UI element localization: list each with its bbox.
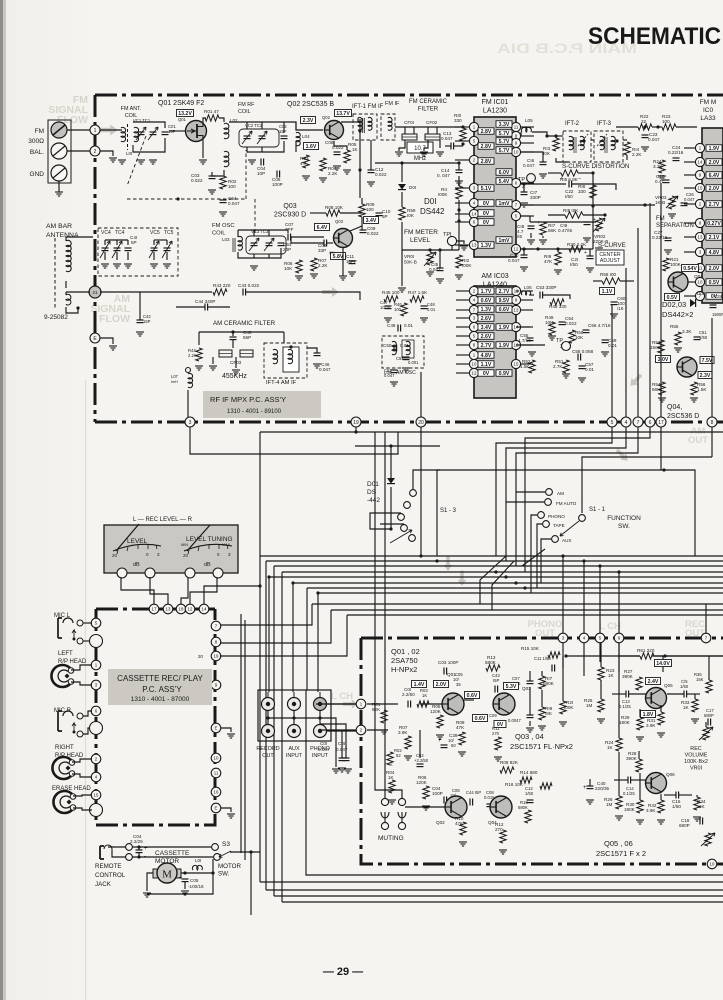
transistor Q02 amp (445, 796, 467, 818)
svg-text:C51: C51 (396, 356, 404, 361)
IC3 voltage 2.6V (478, 333, 494, 340)
svg-text:1.9V: 1.9V (709, 146, 720, 152)
IC3 pin 3 left (456, 313, 479, 322)
amp supply rail (619, 654, 723, 657)
IC2 pin 13 (684, 232, 705, 241)
grounds q07 (658, 348, 698, 402)
svg-text:C09: C09 (489, 713, 497, 718)
resistor R18 680K lower (518, 800, 531, 823)
svg-text:19: 19 (353, 420, 359, 426)
wire antenna mid (66, 281, 90, 295)
svg-text:15: 15 (698, 186, 703, 191)
svg-text:2SC1571 F x 2: 2SC1571 F x 2 (596, 849, 646, 858)
svg-text:82: 82 (396, 753, 401, 758)
resistor R01 47 (204, 109, 219, 121)
wire pivot riser (582, 457, 712, 513)
IC1 voltage 0V (478, 219, 494, 226)
motor loop wire (147, 859, 215, 894)
cap C05 100P (272, 171, 283, 188)
label C04 2.2/25 (130, 834, 143, 844)
IC2 voltage 0V (706, 293, 722, 300)
svg-text:1.1V: 1.1V (481, 362, 492, 368)
voltage 13.2V Q01 (177, 110, 194, 118)
cap C02 2.2/50 (414, 753, 429, 767)
svg-text:OUT: OUT (262, 753, 274, 759)
svg-text:120K: 120K (416, 780, 428, 785)
ceramic filter CF02 (425, 134, 440, 140)
svg-text:R15 10K: R15 10K (521, 646, 540, 651)
svg-text:0.01: 0.01 (404, 323, 413, 328)
svg-text:3.9K: 3.9K (646, 723, 656, 728)
svg-text:S-CURVE DISTORTION: S-CURVE DISTORTION (562, 163, 629, 170)
switch S1-1 labels (548, 491, 577, 543)
voltage 0.54V (682, 265, 699, 273)
svg-text:0.5V: 0.5V (709, 280, 720, 286)
svg-text:1500P: 1500P (712, 312, 723, 317)
svg-text:+: + (584, 250, 587, 256)
svg-text:3.3V: 3.3V (499, 122, 510, 128)
svg-text:11: 11 (514, 125, 519, 130)
svg-text:K: K (390, 762, 393, 767)
svg-text:1/50: 1/50 (680, 684, 689, 689)
cassette top pin 18 (176, 604, 186, 614)
bus drop to exit 4 (281, 572, 283, 902)
svg-text:ImH: ImH (171, 380, 178, 384)
IC1 voltage 1mV (496, 237, 512, 244)
wire antenna bottom (66, 306, 80, 313)
svg-text:Q05: Q05 (664, 683, 673, 688)
svg-text:L08: L08 (384, 370, 392, 375)
IC U2 LA3301 body (702, 128, 723, 303)
svg-text:Q05 , 06: Q05 , 06 (604, 839, 633, 848)
IC3 pin 8 left (456, 340, 479, 349)
resistor R19 47K (544, 249, 562, 274)
label S1-1 (589, 507, 606, 513)
cap C63 24P (278, 242, 292, 252)
svg-text:MAIN P.C.B DIA: MAIN P.C.B DIA (497, 40, 637, 56)
tuner border pin 7 (633, 417, 643, 427)
svg-text:100K: 100K (670, 262, 682, 267)
amp top pin 5 (595, 633, 605, 643)
jack PHONO INPUT top (314, 692, 327, 711)
svg-text:13: 13 (472, 243, 477, 248)
svg-text:RI8 I0K: RI8 I0K (563, 208, 579, 213)
label Q02 amp (436, 820, 445, 825)
svg-text:2.6V: 2.6V (481, 334, 492, 340)
svg-text:300Ω: 300Ω (28, 138, 44, 145)
svg-text:E: E (215, 806, 218, 811)
voltage 2.3V Q02 (301, 117, 316, 125)
IC1 pin 13 left (455, 240, 479, 249)
svg-text:12: 12 (472, 371, 477, 376)
bus drop to exit 3 (273, 566, 275, 896)
svg-text:GND: GND (30, 171, 45, 178)
svg-text:680K: 680K (485, 660, 497, 665)
svg-text:330: 330 (454, 118, 462, 123)
voltage 1.6V (304, 143, 319, 151)
svg-text:R61 220: R61 220 (637, 648, 655, 653)
wire gang rails (105, 240, 167, 260)
cap C11 1/50 (534, 656, 555, 672)
IC3 voltage 1.7V (478, 288, 494, 295)
resistor R02 82 (387, 748, 403, 767)
label IFT-2 IFT-3 (565, 121, 612, 127)
svg-text:0.047: 0.047 (508, 258, 520, 263)
resistor R50 10K (569, 330, 584, 343)
svg-text:LA33: LA33 (700, 115, 716, 122)
svg-text:1.5K: 1.5K (697, 387, 707, 392)
svg-text:2.4V: 2.4V (648, 679, 659, 685)
svg-text:AM BAR: AM BAR (46, 223, 72, 230)
grounds meter area (398, 272, 463, 292)
mic R jack (58, 711, 83, 737)
resistor R01 82K (372, 702, 388, 734)
label L08 AM OSC (384, 370, 416, 376)
svg-text:LA1230: LA1230 (483, 108, 507, 115)
svg-text:L03: L03 (222, 237, 230, 242)
cap C12 0.022 (368, 167, 387, 177)
svg-text:7: 7 (637, 420, 640, 426)
svg-text:VR0I: VR0I (404, 254, 414, 259)
svg-text:I5P: I5P (493, 678, 499, 683)
resistor R46 100 (394, 302, 407, 316)
label Q04 small (694, 274, 703, 279)
flow arrow right1 (627, 372, 644, 389)
cap C18 4.7/16 (517, 220, 540, 239)
svg-text:L — REC LEVEL — R: L — REC LEVEL — R (133, 517, 193, 523)
svg-text:8: 8 (711, 420, 714, 426)
exit wire 3 (274, 895, 723, 897)
ceramic filter CF03 a (219, 350, 232, 357)
IC3 pin 11 right (511, 286, 533, 295)
resistor R29 180K (619, 709, 644, 741)
svg-text:CF0I: CF0I (404, 120, 414, 125)
cap C43 0.022 (238, 283, 260, 296)
cap C05 10/35 (453, 672, 463, 687)
svg-text:Q02 2SC535 B: Q02 2SC535 B (287, 101, 334, 108)
svg-text:MOTOR: MOTOR (218, 863, 241, 870)
wire VC2 rail (229, 122, 296, 133)
IC3 voltage 1.9V (496, 342, 512, 349)
resistor R13 10K (543, 134, 559, 156)
cap C19 0.47/16 (558, 217, 596, 233)
wire osc bottom (238, 248, 281, 258)
IC1 voltage 2.8V (478, 143, 494, 150)
transistor Q06 (646, 773, 667, 794)
amp inner drop 5 (599, 643, 601, 662)
svg-text:2SC930 D: 2SC930 D (274, 212, 306, 219)
IC2 voltage 4.8V (706, 249, 722, 256)
ground osc (250, 266, 258, 270)
svg-text:3.4V: 3.4V (481, 325, 492, 331)
tuner border pin 17 (656, 417, 666, 427)
IC3 pin 13 right (511, 305, 533, 314)
svg-text:3.9K: 3.9K (398, 730, 408, 735)
amp left pin 1 (356, 699, 366, 709)
svg-text:19: 19 (214, 654, 219, 659)
wire coil bottom rail (133, 138, 165, 152)
IFT-2 transformer (563, 131, 591, 162)
label 455KHz (222, 373, 247, 380)
svg-text:100: 100 (394, 307, 402, 312)
svg-text:/I6: /I6 (517, 234, 523, 239)
bus wire 3 (274, 565, 723, 567)
IC2 pin 1 (684, 143, 705, 152)
cap C39 10/50 (438, 733, 458, 748)
svg-text:P.C. ASS’Y: P.C. ASS’Y (142, 685, 182, 694)
svg-text:13.7V: 13.7V (336, 111, 350, 117)
svg-text:10: 10 (514, 150, 519, 155)
resistor R13 680K (485, 655, 500, 671)
tuning cap TC5 (162, 241, 172, 258)
svg-text:3: 3 (189, 420, 192, 426)
flow arrow amp (343, 700, 358, 709)
svg-text:1.5K: 1.5K (520, 364, 530, 369)
IC3 voltage 0.9V (496, 370, 512, 377)
IC2 voltage 2.0V (706, 185, 722, 192)
svg-text:+: + (560, 176, 563, 182)
grounds scurve row (527, 233, 603, 252)
cap C14 0.047 (437, 163, 463, 185)
jack RECORD OUT bottom (262, 719, 275, 738)
wire q02 stage (367, 700, 474, 807)
svg-text:AM: AM (557, 491, 564, 496)
IFT-4 transformer (264, 343, 307, 378)
IC1 voltage 5.1V (478, 185, 494, 192)
svg-text:C44 I5P: C44 I5P (466, 790, 481, 795)
label Q01 02 2SA750 (391, 647, 420, 674)
svg-text:5: 5 (611, 420, 614, 426)
resistor R52 1.5K (520, 359, 535, 373)
amp top pin 6 (614, 633, 624, 643)
cassette left pin 4 (91, 772, 101, 782)
svg-text:0V: 0V (483, 220, 490, 226)
bus wire 6 (293, 582, 723, 584)
IC1 voltage 2.8V (478, 128, 494, 135)
cassette right pin 7 (211, 621, 221, 631)
switch S1-3 arm (390, 530, 412, 543)
exit wire 5 (306, 690, 723, 875)
label ERASE HEAD (52, 786, 91, 792)
svg-text:12: 12 (514, 247, 519, 252)
resistor R17 56K (540, 222, 557, 235)
wire pin7 elbow (516, 427, 638, 566)
tuner border pin 2 (90, 146, 100, 156)
svg-text:56P: 56P (243, 335, 251, 340)
resistor R12 270 (495, 822, 507, 854)
bus junction dots (267, 554, 620, 594)
tuner border pin 3 (185, 417, 195, 427)
svg-text:100P: 100P (432, 791, 443, 796)
resistor R14 2.2K (624, 142, 643, 160)
voltage 3.0V (656, 356, 671, 364)
svg-text:BAL.: BAL. (30, 149, 44, 156)
svg-text:R01 47: R01 47 (204, 109, 219, 114)
label CF03 (230, 360, 242, 365)
resistor R15 10K amp (521, 646, 560, 658)
voltage 2.4V amp (646, 678, 661, 686)
amp pin drop 4 (583, 561, 585, 633)
svg-text:0.047: 0.047 (318, 747, 330, 752)
svg-text:2.2K: 2.2K (328, 171, 338, 176)
svg-text:14: 14 (698, 160, 703, 165)
svg-text:13: 13 (514, 308, 519, 313)
svg-text:2.2K: 2.2K (632, 152, 642, 157)
svg-text:M: M (162, 869, 172, 881)
svg-text:12: 12 (188, 607, 193, 612)
svg-text:1.7V: 1.7V (481, 289, 492, 295)
tuner border pin 8 (707, 417, 717, 427)
svg-text:47K: 47K (456, 725, 465, 730)
svg-text:R14 680: R14 680 (520, 770, 538, 775)
label MIC R (54, 708, 72, 714)
svg-text:L0I: L0I (126, 151, 132, 156)
resistor R25 1M (584, 680, 605, 723)
svg-text:4: 4 (625, 420, 628, 426)
wire C42 (139, 292, 141, 320)
resistor R44 2.2K (188, 348, 203, 370)
riser x421 (420, 372, 422, 417)
bus drop mid jack (306, 588, 308, 690)
IC3 pin 4 left (456, 295, 479, 304)
svg-text:S1 - 3: S1 - 3 (440, 508, 457, 514)
tuning cap VC4 (100, 241, 110, 258)
svg-text:R08 82K: R08 82K (500, 760, 519, 765)
jack PHONO INPUT bottom (314, 719, 327, 738)
svg-text:1310 - 4001 - 87000: 1310 - 4001 - 87000 (131, 696, 190, 703)
label Q01 small (178, 117, 187, 122)
svg-text:S1 - 1: S1 - 1 (589, 507, 606, 513)
tuner border pin 5 (607, 417, 617, 427)
jack labels (256, 746, 330, 759)
svg-text:FUNCTION: FUNCTION (607, 515, 641, 522)
diode D01 (398, 184, 416, 190)
ground Q01 (199, 160, 207, 164)
wire y432 left drop (258, 432, 261, 588)
svg-text:9.5V: 9.5V (499, 298, 510, 304)
svg-text:1.6V: 1.6V (306, 144, 317, 150)
resistor R06 120K (416, 775, 430, 810)
svg-text:3.9K: 3.9K (646, 808, 656, 813)
IC1 pin 11 right (511, 122, 534, 131)
resistor R08 82K amp (500, 760, 519, 773)
resistor R61 220 (637, 648, 655, 659)
voltage 1.4V amp (412, 681, 427, 689)
resistor R14 680 (520, 770, 538, 783)
IC3 voltage 0.6V (496, 306, 512, 313)
bus drop to phono jack (317, 593, 319, 692)
svg-text:3.3K: 3.3K (653, 164, 663, 169)
svg-text:11: 11 (214, 771, 219, 776)
label VC1 TC1 (133, 118, 151, 123)
svg-text:Q01 2SK49 F2: Q01 2SK49 F2 (158, 100, 204, 107)
svg-text:-100/16: -100/16 (188, 884, 204, 889)
svg-text:C56 4.7/16: C56 4.7/16 (588, 323, 611, 328)
IC3 voltage 9.5V (496, 297, 512, 304)
resistor R07 3.9K (398, 725, 412, 760)
cap C44 340P (195, 299, 215, 311)
IC1 pin 10 right (511, 147, 534, 156)
svg-text:6: 6 (649, 420, 652, 426)
label AM CERAMIC FILTER (213, 320, 276, 327)
svg-text:D0I: D0I (409, 185, 416, 190)
label Q03 04 2SC1571 (510, 732, 573, 751)
cassette right pin 10 (211, 753, 221, 763)
IC3 voltage 1.1V (478, 361, 494, 368)
label VC3 TC3 (251, 229, 269, 234)
svg-text:OUT: OUT (688, 435, 708, 446)
amp inner drop 6 (618, 643, 620, 672)
svg-text:D01: D01 (367, 481, 379, 488)
resistor R04 1K (386, 770, 396, 804)
svg-text:1mV: 1mV (499, 238, 510, 244)
resistor R34 1K lower (693, 795, 706, 821)
svg-text:RIGHT: RIGHT (55, 745, 74, 751)
resistor R21 100K (663, 257, 682, 271)
label MOTOR SW (218, 863, 241, 878)
wire pin8 drop (711, 427, 713, 457)
svg-text:RECORD: RECORD (256, 746, 279, 752)
meter pins (117, 568, 223, 578)
jack to amp pin1 (326, 703, 356, 705)
bus line y604 (312, 603, 723, 605)
flow arrow right2 (614, 447, 631, 464)
page number 29 (323, 966, 363, 978)
IC1 pin 3 left (455, 183, 479, 192)
svg-text:7.5V: 7.5V (702, 358, 713, 364)
svg-text:10/16: 10/16 (380, 305, 391, 310)
svg-text:MIN: MIN (181, 543, 188, 547)
label VC2 TC2 (245, 123, 263, 128)
svg-text:0.22/16: 0.22/16 (668, 150, 684, 155)
svg-text:13: 13 (698, 235, 703, 240)
meter wires to cassette (121, 577, 260, 604)
FM gang dashed linkage (127, 136, 255, 234)
IC2 voltage 6.4V (706, 172, 722, 179)
svg-text:2.7K: 2.7K (553, 364, 563, 369)
IC1 pin 9 right (511, 138, 534, 147)
cap C52 0.047 (384, 368, 398, 378)
cap C26 0.047 (681, 192, 696, 206)
wire R01 to L02 (219, 118, 224, 122)
flow arrow fm in (99, 125, 118, 136)
svg-text:Q04,: Q04, (667, 404, 682, 411)
FM antenna terminal strip (48, 120, 71, 183)
IC3 pin 15 right (511, 359, 533, 368)
cap C41 5P (125, 235, 138, 251)
IC3 pin 14 right (511, 322, 533, 331)
label box RF IF MPX P.C. ASS'Y (203, 391, 321, 418)
exit wire 1 (260, 881, 723, 883)
resistor R17 680K (539, 671, 555, 707)
svg-text:0.022: 0.022 (565, 321, 577, 326)
svg-text:+: + (438, 738, 442, 744)
svg-text:C0I: C0I (320, 741, 327, 746)
grounds under osc (295, 272, 356, 280)
tuning gang VC2 TC2 (239, 129, 279, 147)
wire Q02 base (296, 122, 323, 152)
IC3 voltage 3.4V (478, 324, 494, 331)
svg-text:2.2K: 2.2K (318, 263, 328, 268)
amp inner drop 4 (583, 643, 585, 676)
cassette left pin 5 (91, 618, 101, 628)
cassette top pin 14 (199, 604, 209, 614)
svg-text:150K: 150K (650, 345, 662, 350)
svg-text:D0I: D0I (424, 197, 436, 206)
cap C20 0.047 (508, 249, 528, 271)
switch S1-1 contacts (538, 489, 586, 543)
left head symbol (51, 665, 73, 687)
